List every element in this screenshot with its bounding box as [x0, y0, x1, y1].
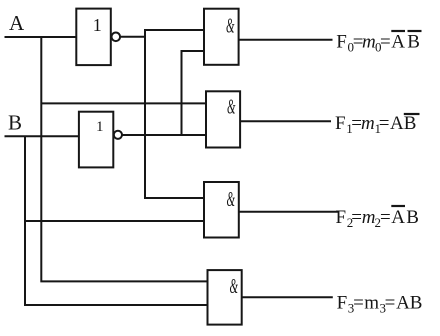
wire A to AND2 input — [41, 102, 207, 104]
and-gate U4 (F1) — [206, 91, 240, 147]
svg-text:A: A — [391, 207, 405, 228]
wire NOT1 output to riser — [120, 36, 146, 38]
svg-text:F: F — [337, 293, 348, 314]
svg-text:1: 1 — [96, 119, 104, 135]
inverter U1 bubble — [112, 33, 121, 42]
wire A input horizontal — [5, 36, 79, 38]
svg-text:=: = — [351, 207, 362, 228]
svg-text:A: A — [9, 11, 25, 35]
svg-text:&: & — [227, 187, 236, 211]
wire B input horizontal — [5, 135, 81, 137]
wire F1 output — [240, 120, 331, 122]
wire Bbar riser (x=181.5) to AND1 second input — [182, 51, 206, 135]
svg-text:=: = — [380, 207, 391, 228]
wire F3 output — [242, 296, 333, 298]
svg-text:&: & — [227, 94, 236, 118]
inverter U2 bubble — [114, 131, 122, 139]
svg-text:F: F — [336, 207, 347, 228]
svg-text:A: A — [391, 32, 405, 53]
svg-text:=: = — [379, 113, 390, 134]
and-gate U6 (F3) — [208, 270, 242, 325]
label F2 equation — [336, 206, 419, 230]
label F3 equation — [337, 293, 423, 316]
svg-text:&: & — [226, 14, 235, 38]
svg-text:&: & — [230, 274, 239, 298]
svg-text:=: = — [353, 293, 364, 314]
svg-text:F: F — [335, 113, 346, 134]
svg-text:=: = — [380, 32, 391, 53]
svg-text:1: 1 — [93, 15, 102, 35]
and-gate U3 (F0) — [204, 9, 239, 65]
svg-text:F: F — [336, 32, 347, 53]
wire NOT2 output to AND2 input — [122, 134, 207, 136]
and-gate U5 (F2) — [204, 182, 239, 238]
inverter U1 (NOT gate for A) — [76, 9, 111, 66]
wire F0 output — [239, 39, 333, 41]
wire A branch riser (x=41.3 down to AND4 row) — [41, 37, 208, 281]
svg-text:B: B — [406, 207, 419, 228]
wire B to AND3 input — [25, 220, 205, 222]
inverter U2 (NOT gate for B) — [79, 112, 113, 168]
svg-text:A: A — [396, 293, 410, 314]
svg-text:B: B — [407, 32, 420, 53]
label F1 equation — [335, 113, 420, 136]
svg-text:B: B — [8, 111, 22, 135]
label F0 equation — [336, 31, 421, 55]
wire B branch riser (x=25 down to AND4 row) — [25, 136, 209, 305]
svg-text:m: m — [362, 207, 376, 228]
svg-text:m: m — [364, 293, 379, 314]
svg-text:B: B — [410, 293, 423, 314]
wire F2 output — [239, 211, 338, 213]
svg-text:B: B — [404, 113, 417, 134]
svg-text:m: m — [361, 113, 375, 134]
svg-text:=: = — [385, 293, 396, 314]
svg-text:m: m — [362, 32, 376, 53]
wire Abar riser (x=145) with taps to AND1 and AND3 — [145, 30, 206, 198]
svg-text:A: A — [390, 113, 404, 134]
